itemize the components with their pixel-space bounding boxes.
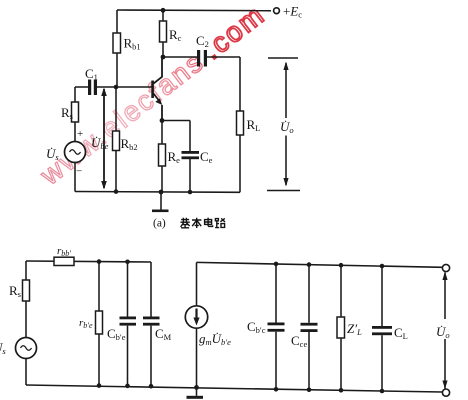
svg-text:Re: Re	[168, 149, 181, 165]
svg-text:Cb′c: Cb′c	[247, 319, 266, 335]
svg-text:C1: C1	[85, 66, 98, 82]
svg-text:gmU̇b′e: gmU̇b′e	[199, 331, 231, 347]
svg-text:Cb′e: Cb′e	[107, 326, 126, 342]
svg-text:Rc: Rc	[169, 27, 182, 43]
svg-text:Cce: Cce	[291, 333, 307, 349]
svg-text:RL: RL	[247, 117, 261, 133]
svg-text:Z′L: Z′L	[347, 321, 362, 337]
svg-text:Ce: Ce	[200, 149, 213, 165]
svg-text:U̇o: U̇o	[436, 324, 450, 340]
svg-text:rbb′: rbb′	[57, 245, 71, 258]
svg-text:Rb1: Rb1	[124, 36, 141, 52]
svg-text:U̇o: U̇o	[280, 119, 294, 135]
svg-text:CL: CL	[394, 325, 408, 341]
svg-text:+: +	[77, 128, 83, 140]
svg-text:+Ec: +Ec	[283, 4, 302, 20]
svg-text:Rb2: Rb2	[121, 136, 138, 152]
svg-text:U̇s: U̇s	[0, 340, 6, 356]
svg-text:CM: CM	[155, 326, 172, 342]
svg-text:(a): (a)	[153, 218, 166, 230]
svg-text:−: −	[76, 166, 82, 178]
svg-text:rb′e: rb′e	[79, 317, 93, 330]
svg-text:Rs: Rs	[9, 283, 21, 299]
